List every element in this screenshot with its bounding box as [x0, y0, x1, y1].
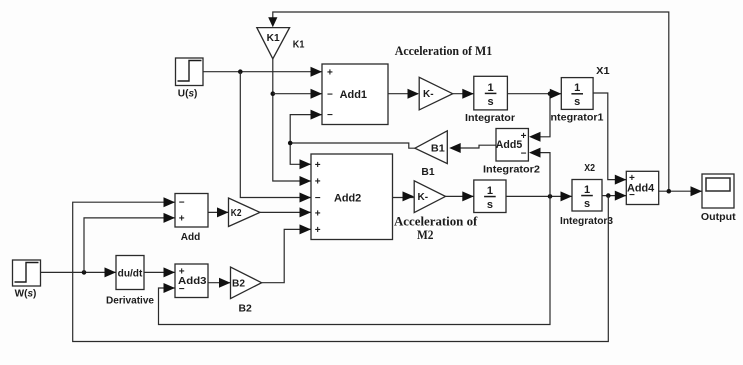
- svg-text:U(s): U(s): [178, 87, 198, 99]
- wire Add4 output to Output scope: [659, 190, 702, 192]
- wire Integrator1 output X1 down to Add4 plus: [593, 93, 626, 180]
- svg-text:−: −: [315, 193, 321, 204]
- wire gain B2 output up to Add2 input 5: [262, 229, 311, 282]
- svg-text:+: +: [315, 209, 321, 220]
- wire gain K- output to Integrator: [453, 93, 474, 95]
- gain K- M2 triangle with B1 label: [414, 166, 445, 213]
- wire K1 column branch to Add1 input 2: [273, 93, 322, 95]
- wire W(s) output to Derivative: [41, 271, 117, 273]
- arrowhead right 9: [462, 89, 474, 99]
- junction node on U(s) line: [238, 69, 243, 74]
- svg-text:−: −: [179, 197, 185, 208]
- arrowhead right 1: [311, 89, 323, 99]
- svg-text:Add4: Add4: [627, 183, 655, 195]
- wire B1 output to riser node: [290, 143, 415, 148]
- junction node on W(s) line: [82, 270, 87, 275]
- svg-text:+: +: [315, 160, 321, 171]
- wire Add5 output to gain B1: [459, 145, 496, 148]
- arrowhead right 10: [550, 89, 562, 99]
- svg-text:Add1: Add1: [340, 89, 367, 101]
- svg-text:+: +: [315, 225, 321, 236]
- step source W(s): [13, 260, 41, 299]
- svg-text:Integrator: Integrator: [465, 112, 515, 124]
- arrowhead right 22: [217, 207, 229, 217]
- derivative block du/dt: [106, 256, 154, 307]
- wire riser node up to Add1 input 3: [290, 115, 322, 143]
- wire W(s) branch up to Add plus: [84, 218, 175, 273]
- sum block Add5 with Integrator2 label: [483, 129, 540, 176]
- arrowhead right 4: [300, 176, 312, 186]
- gain B1 triangle pointing left: [415, 131, 447, 164]
- label K1: [293, 39, 305, 51]
- wire riser node down to Add2 input 1: [290, 143, 311, 164]
- integrator block 1/s: [465, 76, 515, 124]
- junction node velocity v1: [548, 91, 553, 96]
- wire Add3 output to gain B2: [208, 282, 230, 284]
- wire Add1 output to gain K-: [388, 93, 418, 95]
- step source U(s): [176, 58, 204, 99]
- junction node on K1 column: [271, 91, 276, 96]
- gain K- M1 triangle: [419, 77, 453, 110]
- svg-text:Derivative: Derivative: [106, 295, 154, 307]
- svg-text:−: −: [179, 284, 185, 295]
- integrator2 block 1/s: [474, 180, 506, 213]
- arrowhead right 8: [408, 89, 420, 99]
- svg-text:s: s: [487, 199, 493, 211]
- svg-text:X1: X1: [596, 65, 610, 77]
- svg-text:s: s: [584, 198, 590, 210]
- arrowhead right 6: [300, 207, 312, 217]
- svg-text:+: +: [315, 177, 321, 188]
- svg-text:M2: M2: [417, 228, 434, 242]
- svg-text:B1: B1: [421, 166, 434, 178]
- arrowhead right 23: [219, 278, 231, 288]
- integrator1 block 1/s with X1 label: [551, 65, 610, 123]
- wire K1 output down: [273, 59, 311, 181]
- arrowhead right 21: [164, 213, 176, 223]
- arrowhead right 13: [691, 186, 703, 196]
- svg-text:X2: X2: [584, 162, 595, 174]
- wire Add2 output to gain K- (M2): [393, 197, 414, 199]
- annotation Acceleration of M1: [395, 44, 493, 58]
- junction node Add4 output: [667, 189, 672, 194]
- svg-text:Output: Output: [701, 211, 736, 223]
- svg-text:1: 1: [574, 82, 580, 94]
- svg-text:Add2: Add2: [334, 192, 361, 204]
- gain K2 triangle: [229, 198, 261, 227]
- svg-text:Add: Add: [181, 231, 201, 243]
- arrow into K1 top: [268, 17, 277, 27]
- sum block Add1: [322, 64, 388, 125]
- svg-text:1: 1: [584, 184, 590, 196]
- arrowhead right 16: [561, 191, 573, 201]
- arrowhead right 0: [311, 67, 323, 77]
- arrowhead right 15: [462, 191, 474, 201]
- svg-text:K-: K-: [418, 192, 429, 203]
- junction node velocity v2: [548, 194, 553, 199]
- arrowhead right 17: [105, 267, 117, 277]
- wire K1 feedback from Add4 output up and across: [273, 12, 669, 191]
- arrowhead right 12: [615, 191, 627, 201]
- svg-text:Add5: Add5: [496, 139, 522, 151]
- svg-text:K-: K-: [423, 89, 434, 100]
- arrowhead right 7: [300, 224, 312, 234]
- svg-text:K2: K2: [231, 208, 242, 219]
- wire Integrator3 output X2 to Add4 minus: [602, 195, 626, 197]
- wire gain K- (M2) output to integrator block: [446, 195, 474, 197]
- svg-text:+: +: [179, 213, 185, 224]
- svg-text:W(s): W(s): [15, 287, 37, 299]
- svg-text:du/dt: du/dt: [118, 268, 143, 280]
- gain B2 triangle with label: [231, 267, 262, 315]
- svg-text:+: +: [327, 67, 333, 78]
- svg-text:K1: K1: [293, 39, 305, 51]
- wire Derivative output to Add3 plus: [144, 271, 175, 273]
- arrowhead right 14: [403, 191, 415, 201]
- arrowhead right 2: [311, 110, 323, 120]
- wire Integrator output to Integrator1: [507, 93, 561, 95]
- arrowhead right 19: [164, 283, 176, 293]
- sum block Add4: [626, 171, 658, 204]
- svg-text:ntegrator1: ntegrator1: [551, 111, 604, 123]
- svg-text:1: 1: [487, 185, 493, 197]
- svg-text:s: s: [488, 96, 494, 108]
- svg-text:1: 1: [488, 82, 494, 94]
- annotation Acceleration of M2: [394, 214, 478, 241]
- arrowhead left 1: [529, 148, 541, 158]
- junction node X2 output: [606, 193, 611, 198]
- sum block Add2: [311, 154, 393, 240]
- svg-text:B2: B2: [232, 279, 245, 290]
- arrowhead left 0: [529, 132, 541, 142]
- svg-text:Acceleration of M1: Acceleration of M1: [395, 44, 493, 58]
- wire gain K2 output to Add2 input 4: [260, 211, 311, 213]
- svg-text:B2: B2: [239, 303, 252, 315]
- wire U(s) branch down to Add2 input 3: [240, 72, 311, 198]
- junction node B1 riser: [288, 141, 293, 146]
- wire v2 down to inner feedback and Add3 minus: [159, 196, 551, 324]
- arrowhead right 11: [615, 175, 627, 185]
- sum block Add3: [175, 264, 208, 298]
- svg-text:−: −: [327, 110, 333, 121]
- wire v1 down to Add5 plus input: [539, 94, 550, 137]
- svg-text:Acceleration of: Acceleration of: [394, 214, 478, 228]
- svg-text:−: −: [327, 89, 333, 100]
- arrowhead right 5: [300, 193, 312, 203]
- arrowhead right 20: [164, 197, 176, 207]
- scope block Output: [701, 174, 736, 223]
- svg-text:Integrator3: Integrator3: [560, 215, 613, 227]
- svg-text:K1: K1: [267, 33, 280, 44]
- integrator3 block 1/s with X2 label: [560, 162, 613, 227]
- svg-text:s: s: [574, 96, 580, 108]
- arrowhead right 18: [164, 267, 176, 277]
- wire U(s) output to Add1 input 1: [203, 71, 322, 73]
- wire integrator to Integrator3 with branches: [506, 195, 572, 197]
- wire X2 down to outer feedback and Add minus: [73, 196, 609, 342]
- wire Add output to gain K2: [208, 211, 229, 213]
- wire v2 up to Add5 minus input: [539, 153, 550, 197]
- svg-text:B1: B1: [431, 144, 445, 155]
- arrowhead right 3: [300, 159, 312, 169]
- arrowhead left 2: [449, 143, 461, 153]
- sum block Add: [175, 194, 208, 244]
- svg-text:Integrator2: Integrator2: [483, 164, 540, 176]
- gain K1 triangle: [257, 28, 290, 59]
